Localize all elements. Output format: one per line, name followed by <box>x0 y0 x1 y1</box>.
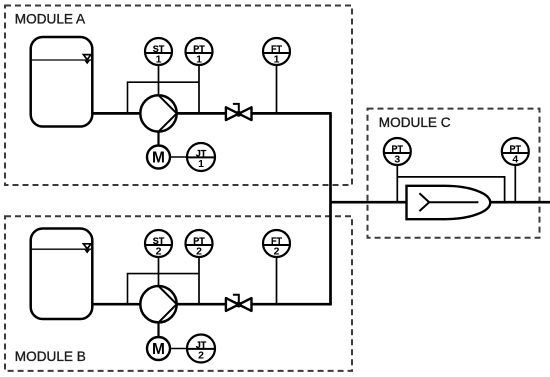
wire: module A vertical pipe down to junction <box>329 112 332 304</box>
instrument PT2 <box>186 230 213 257</box>
svg-text:PT: PT <box>510 144 522 154</box>
svg-text:2: 2 <box>156 245 162 257</box>
wire: FT1 stem to pipe <box>276 65 278 114</box>
wire: PT3 stem and upstream tap <box>396 165 398 202</box>
wire: FT2 stem to pipe <box>276 256 278 304</box>
svg-text:PT: PT <box>392 144 404 154</box>
svg-text:1: 1 <box>198 158 204 170</box>
wire: PT4 stem to pipe <box>514 165 516 202</box>
svg-text:2: 2 <box>274 245 280 257</box>
instrument JT1 <box>187 143 215 171</box>
svg-text:FT: FT <box>271 44 282 54</box>
svg-text:ST: ST <box>153 44 165 54</box>
svg-text:MODULE A: MODULE A <box>15 12 86 27</box>
motor M2 (module B) <box>147 337 170 360</box>
svg-text:M: M <box>152 150 165 167</box>
level symbol tank T1 <box>83 55 91 64</box>
wire: pump B shaft to motor M <box>157 321 159 337</box>
svg-text:2: 2 <box>196 245 202 257</box>
module B boundary <box>5 216 352 371</box>
svg-text:PT: PT <box>193 44 205 54</box>
wire: PT1 stem to pipe <box>198 65 200 114</box>
wire: ST1 stem to pump <box>158 65 160 96</box>
wire: ST2 stem to pump <box>158 256 160 287</box>
instrument FT1 <box>263 38 290 65</box>
valve V2 (module B) <box>226 295 252 311</box>
tank T2 (module B) <box>31 229 93 320</box>
wire: PT2 stem to pipe <box>198 256 200 304</box>
pump P1 (module A) <box>140 95 176 131</box>
svg-text:ST: ST <box>153 236 165 246</box>
module C boundary <box>368 109 540 238</box>
wire: motor M to JT2 <box>170 348 188 350</box>
instrument JT2 <box>187 335 215 363</box>
tank T1 (module A) <box>31 37 93 127</box>
instrument ST2 <box>145 230 172 257</box>
svg-text:1: 1 <box>196 53 202 65</box>
svg-text:3: 3 <box>394 153 400 165</box>
instrument PT1 <box>186 38 213 65</box>
svg-text:1: 1 <box>274 53 280 65</box>
svg-text:MODULE C: MODULE C <box>379 115 451 130</box>
motor M1 (module A) <box>147 146 170 169</box>
svg-text:FT: FT <box>271 236 282 246</box>
wire: PT1 impulse line bridge over pump A <box>128 82 200 113</box>
svg-text:JT: JT <box>196 148 207 158</box>
valve V1 (module A) <box>226 104 252 120</box>
svg-text:MODULE B: MODULE B <box>15 349 86 364</box>
wire: pump A shaft to motor M <box>157 130 159 146</box>
wire: connector pipe to module C and outlet <box>331 201 550 204</box>
level symbol tank T2 <box>83 244 91 253</box>
module A boundary <box>5 6 352 186</box>
wire: module B main pipe from tank to corner <box>92 303 332 306</box>
svg-text:4: 4 <box>512 153 518 165</box>
pump P2 (module B) <box>140 286 176 322</box>
svg-text:2: 2 <box>198 349 204 361</box>
instrument ST1 <box>145 38 172 65</box>
instrument PT3 <box>384 138 411 165</box>
svg-text:PT: PT <box>193 236 205 246</box>
instrument PT4 <box>502 138 529 165</box>
wire: module A main pipe from tank to corner <box>92 112 331 115</box>
svg-text:1: 1 <box>156 53 162 65</box>
ejector U1 (module C) <box>407 186 491 219</box>
wire: bypass sensing line over device <box>397 177 504 202</box>
instrument FT2 <box>263 230 290 257</box>
svg-text:JT: JT <box>196 340 207 350</box>
wire: PT2 impulse line bridge over pump B <box>128 274 200 305</box>
wire: motor M to JT1 <box>170 156 188 158</box>
svg-text:M: M <box>152 341 165 358</box>
